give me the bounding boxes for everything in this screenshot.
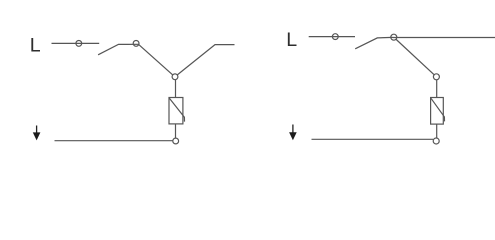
node terminal on L wire (right circuit)	[332, 34, 338, 40]
direction arrow (right circuit)	[289, 125, 297, 141]
node terminal on L wire (left circuit)	[76, 41, 82, 47]
wire lamp node down to lamp (left circuit)	[175, 80, 177, 98]
glow lamp E1 diagonal stroke (left circuit)	[169, 98, 184, 121]
switch blade S2 (closed to lamp, right circuit)	[355, 37, 392, 48]
switch pivot node (left circuit)	[133, 41, 139, 47]
switch pivot node (right circuit)	[391, 34, 397, 40]
switch blade S1 (open position, left circuit)	[98, 44, 139, 55]
wire pivot down to lamp node (right circuit)	[396, 39, 435, 75]
wire lamp node down to lamp (right circuit)	[436, 80, 438, 98]
wire lamp to bottom node (right circuit)	[436, 124, 438, 138]
indicator glow lamp E2 body (right circuit)	[431, 98, 444, 125]
wire pivot to lamp node (left circuit)	[139, 44, 173, 74]
wire pivot to right rail (right circuit)	[393, 37, 495, 39]
bottom node terminal (right circuit)	[433, 138, 439, 144]
wire from L (right circuit)	[309, 36, 355, 38]
glow lamp E2 diagonal stroke (right circuit)	[431, 98, 445, 121]
direction arrow (left circuit)	[33, 126, 41, 141]
lamp top node (left circuit)	[172, 74, 178, 80]
wire from L (left circuit)	[52, 42, 100, 44]
wire lamp to bottom node (left circuit)	[175, 124, 177, 138]
svg-text:L: L	[30, 35, 41, 57]
neutral/return wire (left circuit)	[55, 140, 173, 142]
lamp top node (right circuit)	[433, 74, 439, 80]
neutral/return wire (right circuit)	[312, 138, 434, 140]
wire lamp node to right throw stub (left circuit)	[177, 45, 234, 75]
bottom node terminal (left circuit)	[173, 138, 179, 144]
indicator glow lamp E1 body (left circuit)	[169, 98, 183, 124]
svg-text:L: L	[286, 29, 297, 51]
